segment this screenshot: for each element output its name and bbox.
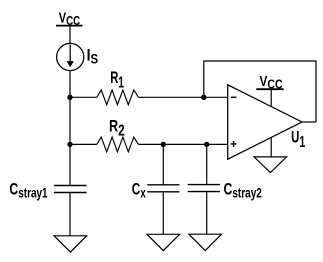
wire VCC bar to current source — [69, 27, 71, 44]
wire op-amp output — [302, 121, 316, 123]
svg-text:IS: IS — [87, 47, 99, 67]
wire node D to Cx — [162, 144, 164, 185]
wire Cx to ground — [162, 192, 164, 235]
svg-text:VCC: VCC — [260, 74, 283, 92]
ground (Cx) — [147, 234, 180, 250]
node D (junction, Cx tap) — [161, 142, 166, 147]
wire current source to node A — [69, 71, 71, 98]
resistor R2 — [97, 137, 139, 152]
svg-text:Cstray1: Cstray1 — [9, 180, 48, 200]
node B (junction, R2 row, left column) — [67, 142, 72, 147]
svg-text:Cx: Cx — [132, 181, 146, 201]
capacitor Cx — [147, 185, 179, 192]
label R2 — [109, 117, 125, 139]
wire R1 to op-amp inverting input — [139, 96, 228, 98]
power VCC (op-amp supply bar) — [256, 89, 283, 107]
power VCC (top-left supply bar) — [56, 25, 83, 27]
label Cx — [132, 181, 146, 201]
resistor R1 — [97, 90, 139, 105]
node A (junction, R1 row, left column) — [67, 95, 72, 100]
svg-text:VCC: VCC — [59, 10, 80, 28]
ground (op-amp) — [254, 157, 287, 173]
capacitor Cstray2 — [188, 185, 220, 192]
wire node E to Cstray2 — [206, 144, 208, 184]
svg-text:R2: R2 — [109, 117, 125, 139]
svg-text:R1: R1 — [110, 69, 124, 91]
op-amp U1 — [228, 85, 302, 159]
svg-text:U1: U1 — [291, 129, 305, 151]
ground (Cstray1) — [54, 236, 87, 252]
capacitor Cstray1 — [54, 186, 87, 193]
label VCC (top-left) — [59, 10, 80, 28]
label IS — [87, 47, 99, 67]
wire node A to node B (left column) — [69, 97, 71, 144]
wire node A to R1 — [70, 96, 97, 98]
ground (Cstray2) — [189, 234, 222, 250]
wire R2 to op-amp non-inverting input — [139, 143, 228, 145]
node C (feedback junction on inverting input) — [201, 95, 206, 100]
wire feedback loop (output to node C) — [204, 61, 316, 122]
label Cstray2 — [224, 180, 262, 200]
wire node B to R2 — [70, 143, 97, 145]
node E (junction, Cstray2 tap) — [204, 142, 209, 147]
label U1 — [291, 129, 305, 151]
label VCC (op-amp) — [260, 74, 283, 92]
svg-text:Cstray2: Cstray2 — [224, 180, 262, 200]
label Cstray1 — [9, 180, 48, 200]
wire Cstray2 to ground — [206, 192, 208, 235]
label R1 — [110, 69, 124, 91]
wire Cstray1 to ground — [69, 193, 71, 237]
wire node B down to capacitor Cstray1 — [69, 144, 71, 185]
current source IS — [57, 43, 84, 70]
wire op-amp to ground — [270, 137, 272, 157]
